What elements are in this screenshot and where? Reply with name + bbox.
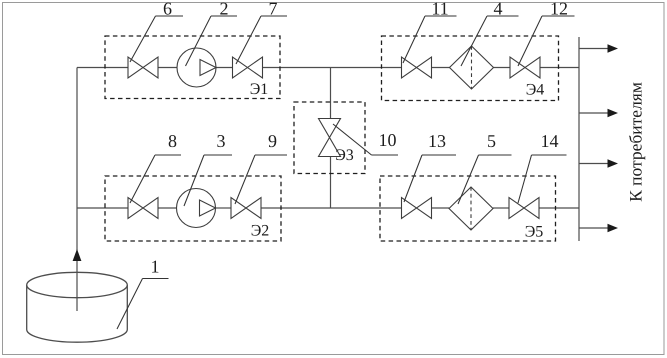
leader line label 2 xyxy=(186,16,238,66)
wire: consumer outlet 1 xyxy=(579,48,609,50)
svg-text:6: 6 xyxy=(163,0,172,19)
module box Э1 xyxy=(105,36,280,99)
wire: top pipe valve 11 to filter 4 xyxy=(432,67,451,69)
wire: left riser from tank to top pipe xyxy=(76,68,78,312)
wire: right distribution bus xyxy=(578,37,580,241)
wire: top pipe valve 7 to valve 11 xyxy=(263,67,402,69)
svg-text:К потребителям: К потребителям xyxy=(626,82,646,202)
wire: top pipe segment tank riser to valve 6 xyxy=(77,67,128,69)
svg-text:3: 3 xyxy=(217,131,226,151)
module box Э2 xyxy=(105,176,281,241)
module box Э3 xyxy=(294,102,365,174)
leader line label 11 xyxy=(403,16,457,63)
svg-text:7: 7 xyxy=(269,0,278,19)
pump 3 circle xyxy=(177,189,216,228)
filter 5 diamond xyxy=(449,187,493,230)
leader line label 14 xyxy=(518,155,567,203)
svg-text:13: 13 xyxy=(428,131,446,151)
filter 4 diamond xyxy=(450,46,494,89)
leader line label 10 xyxy=(333,124,398,155)
wire: bottom pipe pump 3 to valve 9 xyxy=(216,207,232,209)
leader line label 8 xyxy=(130,155,181,203)
svg-text:10: 10 xyxy=(379,130,397,150)
valve 9 xyxy=(231,198,261,219)
valve 10 vertical in cross branch xyxy=(319,119,341,157)
wire: consumer outlet 4 xyxy=(579,227,609,229)
wire: top pipe valve 12 to bus xyxy=(540,67,579,69)
svg-text:12: 12 xyxy=(550,0,568,19)
filter 5 dashed center line xyxy=(470,187,472,230)
arrowhead: consumer outlet 2 xyxy=(608,109,619,117)
valve 13 xyxy=(402,198,432,219)
valve 12 xyxy=(510,57,540,78)
svg-text:Э4: Э4 xyxy=(526,82,545,99)
wire: consumer outlet 3 xyxy=(579,163,609,165)
wire: top pipe valve 6 to pump 2 xyxy=(158,67,178,69)
wire: bottom pipe valve 9 to valve 13 xyxy=(261,207,402,209)
wire: bottom pipe valve 8 to pump 3 xyxy=(158,207,177,209)
leader line label 6 xyxy=(130,16,183,62)
wire: consumer outlet 2 xyxy=(579,112,609,114)
valve 11 xyxy=(402,57,432,78)
pump 2 circle xyxy=(177,48,216,87)
leader line label 1 xyxy=(117,279,169,330)
svg-text:1: 1 xyxy=(151,257,160,277)
valve 14 xyxy=(509,198,539,219)
wire: bottom pipe filter 5 to valve 14 xyxy=(493,207,509,209)
svg-text:11: 11 xyxy=(431,0,448,19)
svg-text:4: 4 xyxy=(494,0,503,19)
leader line label 12 xyxy=(518,16,575,66)
valve 8 xyxy=(128,198,158,219)
wire: bottom pipe valve 14 to bus xyxy=(539,207,579,209)
svg-text:14: 14 xyxy=(541,131,559,151)
svg-text:Э2: Э2 xyxy=(251,223,270,240)
pump 2 rotor triangle xyxy=(200,60,216,76)
leader line label 9 xyxy=(235,155,287,204)
wire: bottom pipe riser to valve 8 xyxy=(77,207,128,209)
svg-text:2: 2 xyxy=(220,0,229,19)
wire: cross branch valve 10 to bottom pipe xyxy=(330,157,332,209)
arrowhead: flow arrow on tank riser xyxy=(73,249,82,261)
leader line label 7 xyxy=(236,16,287,64)
svg-text:Э5: Э5 xyxy=(525,224,544,241)
svg-text:8: 8 xyxy=(168,131,177,151)
svg-text:9: 9 xyxy=(268,131,277,151)
tank 1 cylinder xyxy=(27,272,128,342)
arrowhead: consumer outlet 1 xyxy=(608,44,619,52)
svg-text:Э3: Э3 xyxy=(335,147,354,164)
filter 4 dashed center line xyxy=(471,46,473,89)
arrowhead: consumer outlet 4 xyxy=(608,224,619,232)
module box Э5 xyxy=(380,176,556,241)
wire: bottom pipe valve 13 to filter 5 xyxy=(432,207,450,209)
arrowhead: consumer outlet 3 xyxy=(608,159,619,167)
valve 7 xyxy=(233,57,263,78)
wire: top pipe filter 4 to valve 12 xyxy=(494,67,511,69)
pump 3 rotor triangle xyxy=(200,200,216,216)
wire: top pipe pump 2 to valve 7 xyxy=(216,67,233,69)
module box Э4 xyxy=(382,36,559,101)
wire: cross branch top pipe to valve 10 xyxy=(330,68,332,119)
leader line label 13 xyxy=(404,155,456,202)
valve 6 xyxy=(128,57,158,78)
svg-text:5: 5 xyxy=(487,131,496,151)
leader line label 4 xyxy=(461,16,519,66)
leader line label 3 xyxy=(184,155,232,206)
leader line label 5 xyxy=(458,155,512,204)
svg-text:Э1: Э1 xyxy=(250,81,269,98)
